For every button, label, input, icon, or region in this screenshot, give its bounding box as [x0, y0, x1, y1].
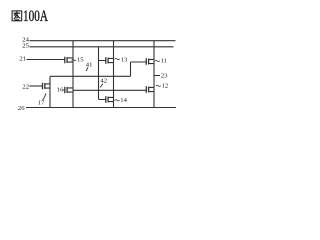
- transistor T12: [146, 86, 154, 93]
- transistor T15: [65, 57, 73, 64]
- wire T17 drain-source: [49, 76, 51, 107]
- title 图100A: [12, 8, 48, 25]
- svg-text:11: 11: [161, 58, 167, 65]
- label 15: [72, 57, 85, 64]
- svg-text:14: 14: [120, 97, 127, 104]
- svg-text:42: 42: [100, 78, 107, 85]
- transistor T13: [106, 57, 114, 64]
- node 41 wire: [50, 62, 146, 76]
- leader 41: [86, 67, 88, 71]
- transistor T11: [146, 58, 154, 65]
- svg-text:12: 12: [162, 83, 169, 90]
- transistor T14: [106, 96, 114, 103]
- supply line 26: [26, 107, 176, 109]
- clock line 24: [30, 40, 176, 42]
- node 23 leader: [154, 75, 160, 77]
- leader 17: [43, 93, 46, 99]
- svg-text:100A: 100A: [23, 8, 49, 25]
- svg-text:15: 15: [77, 57, 84, 64]
- gate net wire to T12: [73, 89, 146, 91]
- svg-text:41: 41: [86, 61, 93, 68]
- svg-text:26: 26: [18, 105, 25, 112]
- svg-text:23: 23: [161, 72, 168, 79]
- label 14: [115, 97, 128, 104]
- svg-text:13: 13: [121, 56, 128, 63]
- svg-text:17: 17: [38, 100, 45, 107]
- node 42 wire: [99, 47, 106, 100]
- clock line 25: [30, 46, 174, 48]
- input line 21: [27, 59, 65, 61]
- wire column A (T15/T16 drain-source): [72, 41, 74, 108]
- leader 16: [62, 89, 65, 91]
- label 11: [155, 58, 167, 65]
- label 13: [115, 56, 128, 63]
- wire column C (T13/T14 drain-source): [113, 41, 115, 108]
- svg-text:21: 21: [19, 55, 26, 62]
- wire column D (T11/T12 drain-source): [153, 41, 155, 108]
- transistor T17: [43, 83, 51, 90]
- input line 22: [30, 85, 43, 87]
- label 12: [156, 83, 168, 90]
- leader 42: [100, 84, 103, 88]
- svg-text:25: 25: [22, 43, 29, 50]
- svg-text:22: 22: [22, 83, 29, 90]
- transistor T16: [65, 87, 73, 94]
